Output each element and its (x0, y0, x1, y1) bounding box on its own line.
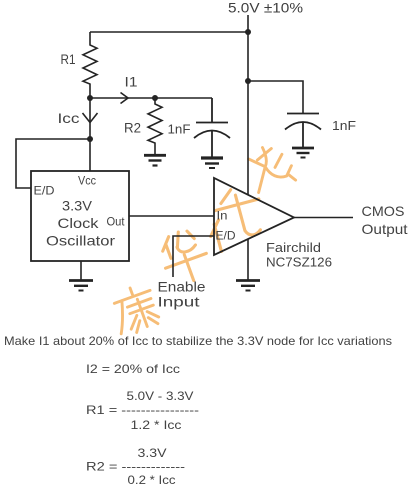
svg-text:5.0V ±10%: 5.0V ±10% (228, 0, 303, 16)
capacitor C2 1nF (285, 114, 321, 148)
svg-text:Make I1 about 20% of Icc to st: Make I1 about 20% of Icc to stabilize th… (4, 334, 392, 348)
svg-text:1nF: 1nF (332, 118, 356, 133)
svg-text:Vcc: Vcc (78, 176, 96, 188)
wire: CMOS output (294, 217, 353, 219)
svg-text:R2: R2 (124, 121, 141, 136)
wire: I1 branch horizontal (90, 97, 212, 99)
wire: buffer ground lead (247, 240, 249, 281)
wire: oscillator Out to buffer In (129, 215, 214, 217)
capacitor C1 1nF (194, 98, 230, 157)
ground for oscillator (69, 279, 93, 282)
svg-text:Enable: Enable (158, 280, 206, 295)
wire: enable input to buffer E/D (173, 236, 214, 277)
wire: oscillator ground lead (80, 261, 82, 280)
svg-text:1nF: 1nF (168, 122, 191, 137)
resistor R1 (83, 32, 97, 98)
current arrow Icc (83, 113, 98, 123)
wire: E/D loop to oscillator (16, 139, 90, 188)
svg-text:R2 = -------------: R2 = ------------- (86, 460, 185, 474)
svg-text:Oscillator: Oscillator (46, 233, 115, 249)
node C: junction to E/D loop (87, 136, 93, 142)
svg-text:E/D: E/D (216, 229, 236, 243)
svg-text:R1 = ----------------: R1 = ---------------- (86, 403, 199, 417)
svg-text:I1: I1 (125, 75, 138, 90)
ground for R2 (144, 154, 166, 157)
wire: supply to C2 (248, 81, 303, 113)
op-amp U2 buffer triangle (214, 178, 294, 255)
wire: top horizontal from supply to R1 (90, 31, 248, 33)
svg-text:1.2 * Icc: 1.2 * Icc (131, 418, 182, 432)
wire: node A to oscillator Vcc (89, 98, 91, 171)
svg-text:Fairchild: Fairchild (266, 240, 321, 255)
svg-text:In: In (217, 209, 228, 223)
node B: junction at R2 top (152, 95, 158, 101)
node: supply junction to C2 (245, 78, 251, 84)
svg-text:CMOS: CMOS (362, 204, 405, 219)
svg-text:3.3V: 3.3V (62, 198, 93, 214)
wire: 5V supply vertical (247, 15, 249, 195)
svg-text:3.3V: 3.3V (138, 446, 167, 460)
ground for C2 (292, 147, 314, 150)
svg-text:R1: R1 (61, 52, 76, 67)
svg-text:Output: Output (362, 222, 408, 237)
node: supply junction top (245, 29, 251, 35)
svg-text:E/D: E/D (34, 184, 55, 198)
svg-text:I2 = 20% of Icc: I2 = 20% of Icc (86, 362, 180, 376)
svg-text:NC7SZ126: NC7SZ126 (266, 255, 332, 270)
ground for buffer (236, 279, 260, 282)
svg-text:Out: Out (107, 215, 126, 229)
current arrow I1 (121, 93, 129, 104)
svg-text:0.2 * Icc: 0.2 * Icc (128, 473, 176, 487)
ground for C1 (201, 156, 223, 159)
oscillator U1 box (31, 171, 129, 261)
resistor R2 (148, 98, 162, 154)
svg-text:Icc: Icc (58, 111, 80, 126)
svg-text:Clock: Clock (58, 215, 100, 231)
node A: junction below R1 (87, 95, 93, 101)
svg-text:Input: Input (158, 295, 200, 310)
svg-text:5.0V - 3.3V: 5.0V - 3.3V (127, 389, 194, 403)
